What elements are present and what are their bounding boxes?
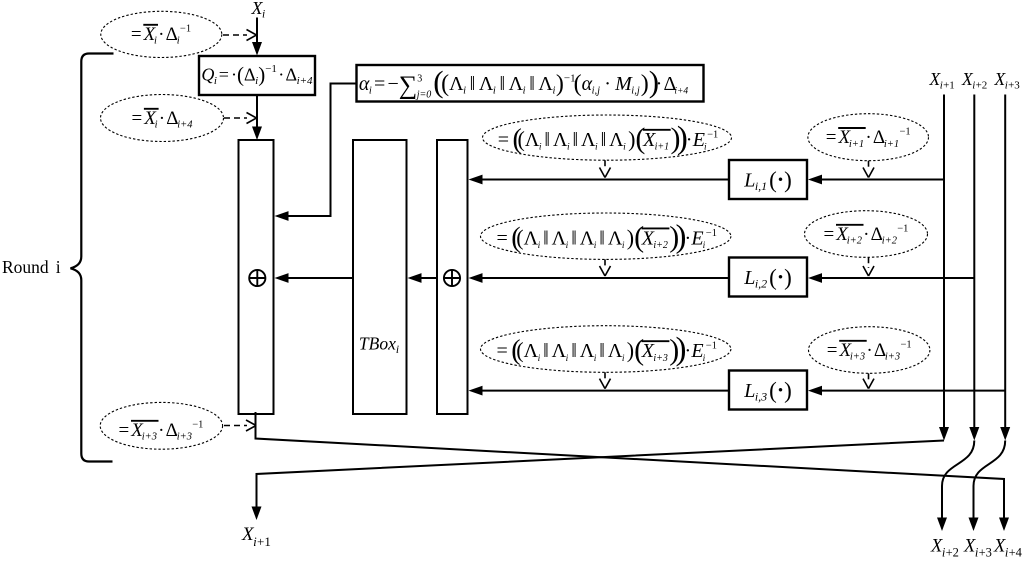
hint ellipse h2 = Xbar_i * Delta_i+4 bbox=[101, 95, 224, 142]
box L_i,3 bbox=[729, 371, 807, 410]
wire X_i+3 vertical line with arrowhead bbox=[1004, 95, 1006, 430]
wire TBox to rect A with arrowhead bbox=[288, 277, 353, 279]
overline bar over X bbox=[143, 24, 158, 26]
wire rect B to TBox with arrowhead bbox=[421, 277, 437, 279]
round brace bbox=[71, 54, 114, 462]
curve X_i+2 shift left to bottom output bbox=[942, 441, 974, 520]
wire X_i+2 vertical line with arrowhead bbox=[973, 95, 975, 430]
overline bar over Xi+2 bbox=[836, 224, 864, 226]
box alpha_i formula bbox=[357, 65, 704, 102]
dashed arrow from mid ellipse row 1 to wire bbox=[604, 160, 606, 169]
overline bar over Xi+1 bbox=[643, 129, 671, 131]
wire rect A output down-right diagonal to X_i+4 output bbox=[256, 412, 1005, 519]
wire alpha box to rect A with arrowhead bbox=[287, 84, 357, 217]
overline bar over Xi+2 bbox=[642, 227, 670, 229]
mid ellipse row 2 = ((Lambda...)(Xbar_i+2))*E_i^-1 bbox=[481, 213, 731, 259]
curve X_i+3 shift left to bottom output bbox=[974, 441, 1006, 520]
wire X_i+1 line to L_i,1 with arrowhead bbox=[820, 179, 944, 181]
overline bar over Xi+3 bbox=[131, 420, 159, 422]
svg-text:Qi=·(Δi)−1·Δi+4: Qi=·(Δi)−1·Δi+4 bbox=[201, 63, 313, 88]
wire X_i into Q box with arrowhead bbox=[256, 18, 258, 45]
box L_i,2 bbox=[729, 258, 807, 297]
wire L box row 2 to rect B with arrowhead bbox=[481, 277, 729, 279]
wire L box row 1 to rect B with arrowhead bbox=[481, 179, 729, 181]
wire X_i+1 vertical line with arrowhead bbox=[943, 95, 945, 430]
wire X_i+1 feedback diagonal to bottom left output bbox=[257, 441, 945, 509]
box L_i,1 bbox=[729, 160, 807, 199]
overline bar over X bbox=[144, 108, 159, 110]
dashed arrow from right ellipse row 3 to wire bbox=[868, 373, 870, 380]
wire X_i+3 line to L_i,3 with arrowhead bbox=[820, 390, 1005, 392]
xor symbol in rect B bbox=[444, 270, 460, 286]
dashed arrow from h2 ellipse to Q output wire bbox=[224, 117, 247, 119]
dashed arrow from mid ellipse row 2 to wire bbox=[604, 259, 606, 268]
mid ellipse row 3 = ((Lambda...)(Xbar_i+3))*E_i^-1 bbox=[481, 326, 731, 373]
wire L box row 3 to rect B with arrowhead bbox=[481, 390, 729, 392]
svg-text:TBoxi: TBoxi bbox=[359, 334, 399, 357]
overline bar over Xi+1 bbox=[838, 127, 866, 129]
wire Q box into left xor column with arrowhead bbox=[256, 95, 258, 128]
left xor column rect A bbox=[239, 140, 274, 414]
right ellipse row 1 = Xbar_i+1 * Delta_i+1^-1 bbox=[808, 114, 929, 161]
dashed arrow from h3 ellipse to output wire bbox=[224, 425, 247, 427]
dashed arrow from right ellipse row 1 to wire bbox=[868, 161, 870, 170]
box Q_i bbox=[199, 56, 315, 95]
overline bar over Xi+3 bbox=[642, 340, 670, 342]
wire X_i+2 line to L_i,2 with arrowhead bbox=[820, 277, 974, 279]
dashed arrow from h1 ellipse to X_i wire bbox=[223, 34, 247, 36]
xor symbol in rect A bbox=[249, 270, 265, 286]
hint ellipse h3 = Xbar_i+3 * Delta_i+3^-1 (bottom left) bbox=[100, 402, 222, 449]
overline bar over Xi+3 bbox=[839, 340, 867, 342]
right ellipse row 3 = Xbar_i+3 * Delta_i+3^-1 bbox=[809, 327, 930, 374]
right ellipse row 2 = Xbar_i+2 * Delta_i+2^-1 bbox=[805, 211, 928, 258]
rect TBox_i bbox=[353, 140, 407, 414]
dashed arrow from right ellipse row 2 to wire bbox=[868, 257, 870, 268]
hint ellipse h1 = Xbar_i * Delta_i^-1 bbox=[101, 11, 222, 57]
right xor column rect B bbox=[437, 140, 468, 414]
dashed arrow from mid ellipse row 3 to wire bbox=[604, 372, 606, 380]
mid ellipse row 1 = ((Lambda...)(Xbar_i+1))*E_i^-1 bbox=[483, 115, 732, 160]
